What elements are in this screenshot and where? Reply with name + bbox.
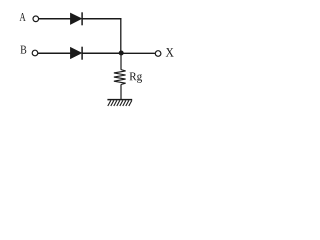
terminal X — [155, 51, 161, 57]
wire D1 to corner — [82, 18, 121, 20]
diode D2 — [70, 47, 82, 60]
junction dot — [119, 51, 124, 56]
resistor Rg — [114, 70, 126, 85]
node B — [20, 46, 26, 54]
label Rg — [130, 72, 142, 82]
terminal B — [32, 50, 38, 56]
node X — [166, 48, 174, 57]
wire corner down to junction — [120, 18, 122, 53]
wire D2 to junction — [82, 52, 121, 54]
wire junction to X terminal — [121, 52, 155, 54]
wire resistor to ground — [120, 84, 122, 99]
wire A to diode D1 — [39, 18, 71, 20]
wire B to diode D2 — [38, 52, 71, 54]
ground — [107, 100, 132, 106]
node A — [20, 13, 26, 21]
terminal A — [33, 16, 39, 22]
wire junction to resistor — [120, 53, 122, 70]
diode D1 — [70, 12, 82, 25]
